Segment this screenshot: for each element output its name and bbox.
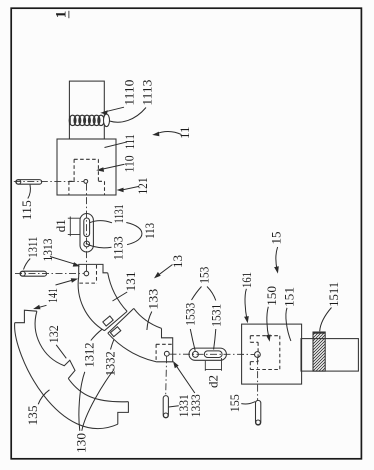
- svg-text:1133: 1133: [110, 236, 125, 260]
- svg-text:155: 155: [227, 394, 242, 412]
- leader 1110: [104, 107, 125, 112]
- leader 1113: [110, 108, 147, 123]
- pin 155: [256, 400, 261, 425]
- svg-text:115: 115: [19, 200, 34, 220]
- svg-text:1333: 1333: [188, 394, 203, 417]
- leader 111: [105, 142, 127, 147]
- leader 1533: [190, 329, 195, 351]
- hidden cavity 110 (dashed): [69, 159, 105, 194]
- tab 1312: [103, 316, 113, 326]
- oval link 153: [189, 348, 226, 360]
- centerline vertical block 15 to pin 155: [257, 358, 259, 401]
- svg-text:150: 150: [264, 286, 279, 306]
- svg-text:113: 113: [142, 223, 157, 239]
- hidden cavity 150 (dashed): [250, 336, 279, 370]
- arm segment 133 inner arc: [134, 308, 162, 328]
- dimension d1 bracket: [68, 217, 80, 237]
- cut edge of 131: [104, 311, 127, 330]
- block 11 (upper housing): [57, 139, 116, 195]
- figure number underline: [68, 11, 70, 18]
- rod 111 (upper shaft rectangle): [69, 81, 104, 139]
- cut edge of 133: [108, 308, 134, 333]
- svg-text:1533: 1533: [182, 303, 197, 326]
- svg-text:d1: d1: [53, 219, 68, 232]
- spring end cap 1113: [104, 114, 110, 127]
- tooth 132: [64, 360, 75, 378]
- leader 141 arrow down-left: [36, 305, 46, 308]
- tab 1332: [110, 327, 120, 337]
- centerline horizontal through pin 115: [14, 181, 84, 183]
- hole 1533: [192, 351, 198, 357]
- svg-text:132: 132: [46, 325, 61, 343]
- leader 1312: [91, 329, 102, 340]
- leader 130 right: [82, 370, 114, 431]
- threaded collar 1511 (hatched): [313, 332, 325, 371]
- spring 1110 (coil loops): [69, 115, 104, 125]
- leader 110: [100, 164, 125, 170]
- hole in block 11: [84, 180, 88, 184]
- centerline horizontal through pin 1311: [15, 273, 84, 275]
- svg-text:1531: 1531: [208, 304, 223, 327]
- svg-text:1: 1: [54, 11, 70, 19]
- svg-text:13: 13: [170, 255, 185, 268]
- svg-text:130: 130: [74, 433, 89, 453]
- leader 15 arrow: [276, 247, 278, 270]
- leader 11: [156, 132, 182, 135]
- centerline from hole 1333 to pin 1331: [165, 356, 168, 395]
- svg-text:15: 15: [269, 232, 284, 245]
- leader 1131: [90, 221, 112, 223]
- hole 1333: [164, 351, 169, 356]
- leader 135: [38, 390, 49, 405]
- hidden square 1313 (dashed): [79, 265, 96, 283]
- svg-text:1313: 1313: [40, 239, 55, 262]
- leader 1511: [320, 308, 332, 332]
- leader 153 fork: [192, 287, 202, 301]
- arm segment 131 outer arc: [78, 277, 104, 331]
- arm segment 131 inner arc: [108, 273, 127, 312]
- pin 1331: [163, 396, 168, 418]
- svg-text:1312: 1312: [82, 343, 97, 368]
- svg-text:133: 133: [146, 289, 161, 310]
- svg-text:121: 121: [135, 178, 150, 195]
- outer band bottom end step: [118, 402, 129, 425]
- outer band top end step: [15, 310, 37, 323]
- hidden square 1333 (dashed): [156, 344, 173, 362]
- svg-text:1311: 1311: [25, 237, 40, 258]
- hole 1133 in link: [84, 241, 90, 247]
- leader 141 arrow up-right: [56, 280, 75, 286]
- shaft 151: [301, 339, 358, 372]
- svg-text:1113: 1113: [140, 80, 155, 106]
- svg-text:110: 110: [121, 155, 136, 172]
- svg-text:1332: 1332: [103, 351, 118, 376]
- leader 130 left: [79, 372, 85, 431]
- leader 1333 arrow: [175, 364, 195, 393]
- outer band inner arc lower part: [68, 379, 128, 402]
- svg-text:111: 111: [122, 134, 137, 149]
- leader 121: [120, 186, 139, 190]
- figure number 1: [54, 11, 70, 19]
- leader 1311: [24, 259, 31, 270]
- pivot hole 1313: [84, 271, 89, 276]
- brace 113: [126, 223, 142, 245]
- leader 115: [28, 185, 31, 199]
- leader 1531: [214, 329, 216, 350]
- slot 1131 in link: [84, 218, 90, 237]
- pin 115: [16, 180, 42, 185]
- block 15: [242, 324, 302, 384]
- mount square of arm 131 (top): [79, 264, 108, 276]
- leader 150 arrow: [267, 307, 269, 339]
- svg-text:d2: d2: [205, 375, 220, 388]
- hole in block 15: [255, 352, 261, 358]
- svg-text:11: 11: [177, 126, 192, 139]
- oval link 113: [80, 214, 93, 253]
- svg-text:153: 153: [196, 267, 211, 284]
- leader 131: [113, 292, 128, 301]
- leader 1313 arrow: [50, 257, 77, 265]
- stepped end of 133: [156, 328, 173, 361]
- leader 1331: [169, 406, 179, 407]
- leader 133: [147, 312, 152, 331]
- svg-text:1511: 1511: [326, 282, 341, 307]
- centerline vertical block to oval 113: [86, 184, 88, 271]
- leader 161 arrow: [245, 289, 247, 320]
- svg-text:151: 151: [281, 287, 296, 307]
- leader 151: [286, 308, 291, 341]
- svg-text:135: 135: [25, 406, 40, 426]
- svg-text:141: 141: [45, 288, 60, 303]
- slot 1531: [204, 351, 222, 358]
- arm segment 133 outer arc: [108, 333, 156, 362]
- dimension d2 bracket: [205, 358, 221, 371]
- centerline horizontal through oval 153: [170, 353, 255, 355]
- leader 132: [56, 345, 66, 359]
- pin 1311: [20, 271, 47, 276]
- leader 155: [241, 402, 255, 404]
- leader 13 arrow: [157, 265, 173, 277]
- svg-text:1110: 1110: [121, 80, 136, 106]
- svg-text:131: 131: [123, 272, 138, 292]
- outer band inner arc upper part (to tooth 132): [35, 311, 64, 366]
- leader 1133: [86, 243, 112, 248]
- svg-text:161: 161: [239, 272, 254, 288]
- outer band 135 outer arc: [15, 323, 118, 429]
- svg-text:1131: 1131: [111, 204, 126, 223]
- leader 1332: [111, 340, 114, 350]
